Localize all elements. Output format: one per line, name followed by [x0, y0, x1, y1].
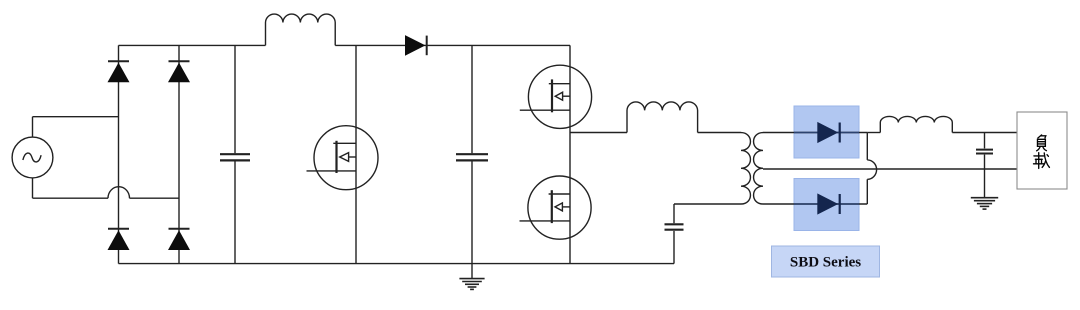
wire half-bridge midpoint output — [570, 132, 627, 134]
load label 载 — [1034, 153, 1050, 169]
diode D5 SBD top — [817, 122, 839, 143]
wire L2 to transformer primary — [698, 132, 741, 134]
capacitor C1 plates — [220, 154, 250, 160]
MOSFET Q3 (half-bridge low side) — [520, 176, 592, 239]
wire primary bottom tap — [674, 203, 741, 205]
transformer T1 secondary winding (center tapped) — [754, 133, 763, 204]
wire AC bottom horizontal left — [33, 197, 109, 199]
capacitor C3 (resonant) upper wire — [673, 204, 675, 223]
capacitor C2 branch lower wire — [471, 162, 473, 264]
capacitor C4 (output) upper wire — [984, 133, 986, 149]
diode D6 SBD bottom — [817, 193, 839, 214]
SBD Series label box — [772, 246, 880, 277]
diode D3 (boost) — [405, 35, 427, 56]
wire hop over bridge leg 1 — [108, 187, 130, 198]
diode D2 bridge leg1 lower — [108, 229, 130, 250]
wire secondary bottom tap — [763, 203, 867, 205]
MOSFET Q1 (PFC switch) — [307, 126, 379, 190]
wire navy segment through top SBD box — [794, 132, 859, 134]
wire rectifier output node vertical lower — [866, 179, 868, 204]
MOSFET Q2 (half-bridge high side) — [520, 65, 592, 128]
AC source V1 — [12, 137, 53, 178]
load box — [1017, 112, 1067, 189]
diode D4 bridge leg2 upper — [168, 61, 190, 82]
capacitor C3 plates — [665, 224, 684, 229]
wire half-bridge vertical — [569, 45, 571, 263]
wire navy segment through bottom SBD box — [794, 203, 859, 205]
SBD highlight box bottom (around diode D6) — [794, 179, 859, 231]
load label 负 — [1037, 135, 1047, 151]
diode D1 bridge leg1 upper — [108, 61, 130, 82]
capacitor C2 plates — [456, 154, 488, 160]
wire AC bottom horizontal right to bridge leg 2 — [130, 197, 180, 199]
inductor L1 (boost PFC) — [266, 14, 336, 45]
inductor L2 (resonant) — [627, 102, 698, 133]
wire bridge leg 1 vertical — [118, 45, 120, 263]
wire AC top vertical — [32, 117, 34, 137]
capacitor C1 branch upper wire — [234, 45, 236, 153]
capacitor C3 lower wire — [673, 231, 675, 264]
transformer T1 primary winding — [741, 133, 750, 204]
wire bridge leg 2 vertical — [178, 45, 180, 263]
wire bottom rail — [119, 263, 675, 265]
wire rectifier output node vertical upper — [866, 133, 868, 160]
wire AC bottom vertical — [32, 178, 34, 198]
wire secondary center tap to load return — [763, 168, 1017, 170]
wire top rail left segment — [119, 44, 266, 46]
capacitor C1 branch lower wire — [234, 162, 236, 264]
capacitor C4 plates — [976, 150, 993, 154]
inductor L3 (output filter) — [880, 116, 952, 132]
capacitor C2 branch upper wire — [471, 45, 473, 153]
svg-text:SBD Series: SBD Series — [790, 255, 861, 271]
wire PFC MOSFET branch vertical — [355, 45, 357, 263]
diode D7 bridge leg2 lower — [168, 229, 190, 250]
wire hop over center tap — [867, 160, 876, 179]
capacitor C4 lower wire — [984, 155, 986, 169]
wire L3 to load — [952, 132, 1017, 134]
ground symbol G1 — [459, 264, 484, 290]
SBD highlight box top (around diode D5) — [794, 106, 859, 158]
ground symbol G2 stem — [984, 169, 986, 197]
wire secondary top tap — [763, 132, 867, 134]
wire top rail right segment — [335, 44, 570, 46]
ground symbol G2 — [971, 198, 998, 209]
wire rectifier node to L3 — [867, 132, 880, 134]
wire AC top horizontal to bridge leg 1 — [33, 116, 119, 118]
